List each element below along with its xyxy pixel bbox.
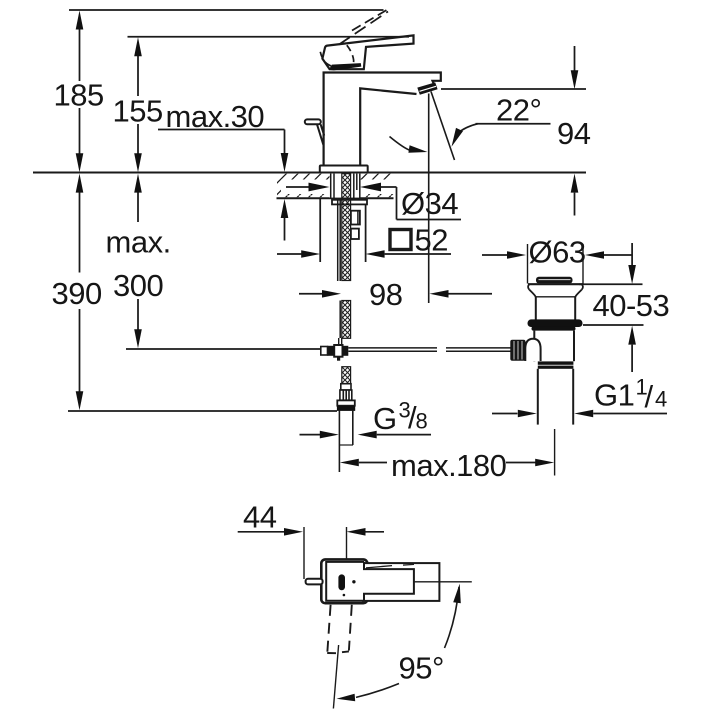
G3/8 black ring bbox=[337, 406, 355, 411]
rotated ray 95 degrees bbox=[333, 645, 338, 709]
dimension diameter63 bbox=[482, 244, 632, 284]
braided hose segment C bbox=[342, 367, 351, 384]
small dot bbox=[343, 594, 346, 597]
handle raised position dashed line 2 bbox=[352, 8, 390, 31]
svg-text:G: G bbox=[373, 401, 397, 436]
drain plug cap bbox=[536, 277, 573, 284]
G3/8 ribbed section bbox=[340, 390, 352, 400]
dashed handle rotated side 1 bbox=[327, 605, 330, 653]
angle arc 95 bottom segment bbox=[356, 684, 399, 698]
horizontal zero-degree ray bbox=[413, 581, 472, 583]
svg-text:4: 4 bbox=[655, 387, 667, 412]
node: 185 top reference line bbox=[69, 9, 384, 11]
leader 22 degrees bbox=[452, 124, 551, 147]
mounting nut bbox=[332, 200, 367, 205]
svg-text:Ø63: Ø63 bbox=[529, 235, 586, 270]
dimension 40-53 bbox=[579, 243, 644, 372]
side block B bbox=[351, 229, 359, 239]
drain centerline bbox=[554, 429, 556, 476]
svg-text:300: 300 bbox=[113, 268, 163, 303]
top view spout bbox=[363, 563, 440, 601]
svg-text:max.: max. bbox=[106, 225, 171, 260]
dimension G 3/8 bbox=[300, 431, 432, 439]
drain bottom rings bbox=[538, 361, 574, 364]
handle swing dashed arc right bbox=[347, 45, 354, 67]
pop-up rod tee fitting bbox=[334, 345, 342, 357]
tee left nub bbox=[321, 347, 328, 356]
tee lower stem bbox=[337, 357, 340, 361]
dashed handle end cap bbox=[327, 652, 336, 654]
svg-text:max.30: max.30 bbox=[166, 99, 265, 134]
shank cartridge lines bbox=[330, 174, 332, 198]
faucet base plate bbox=[320, 166, 368, 173]
svg-text:22°: 22° bbox=[496, 93, 541, 128]
horizontal pop-up rod to drain bbox=[348, 347, 437, 349]
node: 155 top reference line bbox=[128, 36, 410, 38]
dimension square52 bbox=[277, 199, 451, 262]
dimension 98 bbox=[299, 290, 492, 298]
dimension G1 1/4 bbox=[492, 410, 667, 418]
dashed handle rotated side 2 bbox=[349, 605, 352, 651]
angle arc 95 top segment bbox=[445, 587, 460, 648]
svg-text:8: 8 bbox=[416, 409, 428, 434]
svg-text:52: 52 bbox=[415, 223, 448, 258]
svg-text:40-53: 40-53 bbox=[593, 288, 670, 323]
supply pipe left lines bbox=[337, 198, 339, 281]
pop-up rod knob bbox=[305, 119, 321, 124]
braided hose segment B bbox=[342, 301, 351, 339]
drain flange rim bbox=[528, 283, 583, 285]
dimension max.300 vertical bbox=[134, 174, 142, 349]
dimension 94 vertical bbox=[441, 46, 586, 216]
svg-text:44: 44 bbox=[243, 500, 277, 535]
stream swivel arc bbox=[390, 137, 412, 151]
svg-text:98: 98 bbox=[369, 277, 402, 312]
dimension max.30 leader and arrows bbox=[158, 130, 288, 241]
node: 390 bottom reference line bbox=[68, 410, 337, 412]
svg-text:155: 155 bbox=[113, 94, 163, 129]
label G1 1/4 bbox=[594, 375, 667, 415]
knurled knob bbox=[510, 340, 525, 361]
faucet body outline bbox=[324, 73, 441, 166]
dimension 185 vertical line bbox=[76, 11, 84, 173]
faucet handle lever bbox=[322, 35, 413, 69]
drain body bbox=[533, 331, 535, 362]
svg-text:94: 94 bbox=[557, 116, 591, 151]
arc arrowhead top bbox=[453, 584, 461, 604]
node: deck hatch right bbox=[361, 174, 395, 198]
dimension 390 vertical bbox=[76, 174, 84, 411]
top view body and lever bbox=[326, 562, 414, 601]
label G 3/8 bbox=[373, 398, 428, 437]
node: max300 bottom reference line bbox=[126, 348, 321, 350]
side block A bbox=[351, 211, 360, 225]
drain tail pipe bbox=[537, 369, 539, 425]
svg-text:Ø34: Ø34 bbox=[401, 186, 458, 221]
dimension diameter34 arrows and leader bbox=[281, 180, 330, 195]
spout inner slant line bbox=[366, 566, 392, 568]
drain gasket bbox=[528, 319, 583, 327]
G3/8 ferrule bbox=[341, 384, 351, 390]
arc arrowhead bottom bbox=[337, 694, 356, 701]
svg-text:/: / bbox=[645, 379, 654, 414]
pop-up rod diagonal bbox=[317, 124, 323, 145]
top view flange bbox=[321, 559, 367, 603]
G3/8 nut bbox=[337, 400, 355, 405]
dimension max.180 bbox=[340, 459, 554, 467]
svg-text:max.180: max.180 bbox=[391, 448, 507, 483]
svg-text:G1: G1 bbox=[594, 378, 634, 413]
dimension 44 bbox=[238, 527, 384, 579]
svg-text:95°: 95° bbox=[399, 651, 444, 686]
stream vertical extension bbox=[428, 94, 430, 304]
dimension 155 vertical line bbox=[134, 37, 142, 172]
svg-text:185: 185 bbox=[54, 78, 104, 113]
node: deck hatch left bbox=[277, 174, 330, 198]
pivot dot bbox=[352, 580, 355, 583]
braided hose in deck bbox=[342, 174, 351, 199]
node: deck bottom line bbox=[277, 197, 394, 199]
svg-text:390: 390 bbox=[52, 276, 102, 311]
node: deck top line bbox=[33, 172, 586, 174]
handle swing dashed arc left bbox=[320, 52, 334, 67]
handle raised position dashed line 1 bbox=[339, 12, 388, 45]
label square symbol bbox=[390, 230, 411, 250]
braided hose segment A bbox=[342, 198, 351, 280]
cartridge pill bbox=[338, 574, 345, 590]
pop-up rod tab bbox=[306, 579, 323, 585]
water stream line bbox=[431, 92, 455, 161]
drain flange waist bbox=[529, 290, 536, 297]
shank white background in deck bbox=[330, 174, 361, 198]
pipe between hose and tee bbox=[338, 338, 340, 346]
rod housing dome bbox=[525, 339, 540, 361]
handle base black wedge bbox=[329, 63, 362, 70]
aerator bbox=[417, 82, 437, 94]
G3/8 tail pipe bbox=[338, 411, 340, 472]
